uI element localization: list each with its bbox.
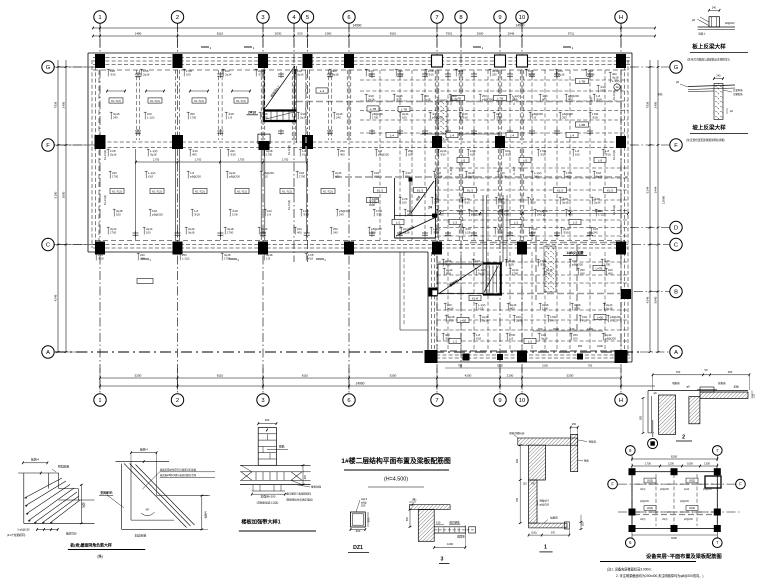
svg-text:附加斜筋: 附加斜筋 (58, 464, 70, 469)
column at G/263 (258, 54, 268, 68)
strength band right leaders (296, 485, 310, 487)
svg-text:2: 2 (176, 398, 179, 404)
svg-text:1200: 1200 (668, 462, 674, 466)
svg-text:100: 100 (263, 174, 268, 178)
svg-text:1,700: 1,700 (282, 158, 289, 162)
vertical beams right half (379, 70, 381, 240)
svg-text:1700: 1700 (372, 115, 379, 119)
svg-text:100: 100 (371, 230, 376, 234)
grid bubble H top (615, 11, 627, 23)
svg-text:2400: 2400 (62, 101, 66, 108)
svg-text:100: 100 (186, 72, 191, 76)
vertical grid line 1 (99, 23, 101, 393)
detail 1 lower narrow wall hatched (529, 480, 537, 523)
svg-text:L8(2): L8(2) (647, 479, 653, 483)
svg-text:B: B (674, 290, 678, 296)
svg-text:1700: 1700 (266, 152, 273, 156)
grid bubble 2 bottom (171, 394, 183, 406)
svg-text:1⊙8: 1⊙8 (478, 306, 484, 310)
small plan bubbles (626, 446, 636, 456)
horizontal grid line B (634, 291, 671, 293)
svg-text:6200: 6200 (671, 536, 677, 540)
vertical grid line 4 (293, 23, 295, 262)
left wall inner edge (98, 70, 100, 240)
svg-text:1360: 1360 (325, 32, 332, 36)
svg-text:L=50: L=50 (460, 318, 467, 322)
svg-text:板跨/4: 板跨/4 (31, 458, 39, 462)
detail 2 small hatched block (689, 397, 700, 424)
svg-text:(H=4.500): (H=4.500) (384, 477, 408, 483)
svg-text:2: 2 (176, 15, 179, 21)
svg-text:400: 400 (542, 97, 547, 101)
svg-text:1-8: 1-8 (266, 256, 270, 260)
svg-text:1700: 1700 (110, 230, 117, 234)
svg-text:1,700: 1,700 (153, 158, 160, 162)
svg-text:240: 240 (712, 7, 717, 10)
corner detail 2 left edge (121, 464, 123, 530)
svg-text:KL-6(2): KL-6(2) (513, 96, 516, 105)
svg-text:700: 700 (458, 364, 463, 368)
small plan corner box (705, 476, 721, 488)
svg-text:②18: ②18 (574, 306, 580, 310)
svg-text:预留: 预留 (584, 459, 590, 463)
corner fan right dim (80, 485, 82, 524)
svg-text:2400: 2400 (595, 209, 601, 213)
stair top flight steps (270, 112, 272, 121)
vertical grid line 8 (460, 23, 462, 368)
vertical grid line 9 (499, 23, 501, 393)
svg-text:2φ16: 2φ16 (482, 318, 489, 322)
svg-text:横向钢筋: 横向钢筋 (449, 520, 460, 524)
thick gray vertical line5 (305, 74, 307, 164)
svg-text:F: F (739, 482, 742, 487)
svg-text:附加斜筋: 附加斜筋 (101, 490, 113, 495)
stair mid bold marks (409, 178, 413, 182)
svg-text:L-2: L-2 (453, 339, 458, 343)
svg-text:锚固筋: 锚固筋 (457, 535, 465, 539)
main title underline (344, 469, 449, 471)
svg-text:1⊙8: 1⊙8 (465, 230, 471, 234)
svg-text:1700: 1700 (227, 230, 234, 234)
svg-text:F: F (611, 482, 614, 487)
svg-text:400: 400 (192, 152, 197, 156)
grid bubble D right (670, 221, 682, 233)
svg-text:G: G (46, 65, 51, 71)
corner detail 2 leaders right (142, 472, 159, 490)
stair low bold flight (483, 262, 502, 264)
detail 3 beam strip (434, 526, 465, 528)
svg-text:KL-10(2): KL-10(2) (287, 200, 291, 210)
thick gray beam right half (296, 101, 620, 103)
detail 3 dims left (409, 510, 411, 527)
svg-text:5144: 5144 (646, 186, 650, 193)
svg-text:KL-3: KL-3 (377, 188, 383, 192)
detail 1 bottom slab end piece (565, 522, 570, 529)
grid bubble A right (670, 346, 682, 358)
dim line F-C with 1700 texts (136, 161, 307, 163)
vertical grid line H (620, 23, 622, 393)
svg-text:700: 700 (588, 364, 593, 368)
svg-text:2φ14: 2φ14 (447, 306, 454, 310)
grid bubble B right (670, 285, 682, 297)
svg-text:8110: 8110 (217, 32, 224, 36)
corner detail 2 angle arc (141, 512, 155, 516)
strength band column stack (258, 428, 276, 466)
vertical grid line 7 (436, 23, 438, 393)
svg-text:7: 7 (435, 398, 438, 404)
detail 2 top dim line (653, 374, 750, 376)
small plan outline (632, 472, 717, 529)
svg-text:300: 300 (367, 517, 371, 522)
svg-text:L-1(2): L-1(2) (612, 79, 620, 83)
svg-text:①16: ①16 (445, 262, 451, 266)
svg-text:1#B(2)加腋: 1#B(2)加腋 (566, 250, 584, 255)
svg-text:加腋筋: 加腋筋 (550, 515, 558, 519)
svg-text:2φ14: 2φ14 (300, 115, 307, 119)
svg-text:KL-6(2): KL-6(2) (590, 96, 593, 105)
svg-text:2φ16: 2φ16 (558, 72, 565, 76)
svg-text:楼板加强带大样1: 楼板加强带大样1 (241, 518, 280, 526)
small plan thick gray beam (634, 514, 716, 516)
svg-text:KL8: KL8 (446, 271, 451, 275)
svg-text:3φ18: 3φ18 (403, 230, 410, 234)
svg-text:KL-7(2): KL-7(2) (323, 189, 333, 193)
column at B/433 (429, 288, 438, 297)
svg-text:240: 240 (550, 318, 555, 322)
svg-text:①16: ①16 (110, 72, 116, 76)
svg-text:①16: ①16 (497, 230, 503, 234)
svg-text:6: 6 (347, 15, 350, 21)
svg-text:(吊): (吊) (412, 498, 416, 502)
beam label boxes row G-F left (109, 98, 123, 103)
svg-text:450: 450 (728, 370, 733, 374)
svg-text:板跨均分: 板跨均分 (66, 532, 77, 536)
svg-text:②18: ②18 (563, 230, 569, 234)
svg-text:1⊙8: 1⊙8 (232, 212, 238, 216)
svg-text:②18: ②18 (262, 115, 268, 119)
svg-text:240: 240 (537, 212, 542, 216)
vertical grid line 5 (307, 23, 309, 262)
svg-text:670: 670 (551, 532, 556, 535)
svg-text:2400: 2400 (654, 101, 658, 108)
wing bottom wall thick dash (430, 350, 630, 352)
svg-text:2φ14: 2φ14 (594, 200, 601, 204)
svg-text:KL-7(2): KL-7(2) (195, 189, 205, 193)
corner fan top edge (18, 472, 59, 474)
svg-text:板配筋: 板配筋 (718, 381, 726, 385)
svg-text:1700: 1700 (190, 115, 197, 119)
right wall of band and wing outer (631, 53, 633, 362)
main title underline 2 (368, 486, 424, 488)
svg-text:②18: ②18 (505, 152, 511, 156)
corner fan bottom dim ticks (37, 529, 58, 531)
svg-text:200: 200 (361, 504, 366, 508)
svg-text:240: 240 (140, 256, 145, 260)
column at F/264 (259, 141, 270, 150)
svg-text:2400: 2400 (497, 209, 503, 213)
stair low main diagonal (439, 265, 481, 294)
svg-text:KL-10(2): KL-10(2) (612, 150, 616, 160)
svg-text:①16: ①16 (496, 115, 502, 119)
corner detail 2 top dim (131, 452, 157, 454)
right dimension lines (649, 60, 651, 352)
grid bubble 4 top (288, 11, 300, 23)
column at B/626 (621, 289, 631, 299)
svg-text:KL-6(2): KL-6(2) (450, 166, 453, 175)
svg-text:7938: 7938 (646, 101, 650, 108)
svg-text:L8(2): L8(2) (689, 506, 695, 510)
svg-text:φ8@200: φ8@200 (482, 97, 493, 101)
svg-text:(100): (100) (531, 532, 537, 535)
svg-text:2φ16: 2φ16 (468, 174, 475, 178)
column at G/177.5 (173, 54, 183, 68)
svg-text:120: 120 (753, 393, 756, 398)
small plan grid dashdot (631, 452, 633, 540)
wing interior beams horizontal (437, 261, 628, 263)
svg-text:KL-7(2): KL-7(2) (237, 189, 247, 193)
horizontal grid line G (42, 66, 96, 68)
svg-text:L8(2): L8(2) (689, 479, 695, 483)
beam rows right half G-F (360, 79, 628, 81)
left wall outer (87, 53, 89, 252)
svg-text:L8(2): L8(2) (640, 489, 646, 491)
column at A/431 (425, 350, 438, 363)
detail 2 bubble (648, 439, 658, 449)
svg-text:1700: 1700 (112, 174, 119, 178)
svg-text:H: H (619, 398, 623, 404)
svg-text:1480: 1480 (135, 32, 142, 36)
svg-text:H: H (619, 15, 623, 21)
strength band vertical ticks (255, 472, 257, 481)
grid bubble 2 top (171, 11, 183, 23)
corner detail 2 right edge horizontal (157, 495, 210, 497)
grid bubble 8 top (455, 11, 467, 23)
svg-text:2φ16: 2φ16 (143, 72, 150, 76)
svg-text:φ8@200: φ8@200 (605, 336, 616, 340)
svg-text:L-5: L-5 (461, 158, 466, 162)
horizontal grid line D (630, 227, 670, 229)
svg-text:150: 150 (436, 520, 441, 524)
column at C/263 (258, 242, 268, 255)
svg-text:②18: ②18 (194, 212, 200, 216)
left dimension lines (57, 60, 59, 352)
svg-text:3φ18: 3φ18 (478, 271, 485, 275)
corner detail 2 inner corner horizontal (131, 519, 174, 521)
svg-text:φ8@200: φ8@200 (378, 152, 389, 156)
svg-text:φ8@200: φ8@200 (152, 212, 163, 216)
svg-text:8110: 8110 (390, 32, 397, 36)
stair low room (438, 263, 502, 265)
svg-text:φ8@200: φ8@200 (703, 489, 713, 491)
solid interior line right mid (420, 133, 500, 135)
hollow G columns right half (432, 55, 443, 67)
svg-text:横向钢筋与板钢筋相同: 横向钢筋与板钢筋相同 (286, 492, 312, 496)
svg-text:板跨/4: 板跨/4 (140, 447, 148, 451)
svg-text:9711: 9711 (568, 32, 575, 36)
svg-text:φ8@200: φ8@200 (680, 501, 690, 503)
detail 1 right small dims (580, 515, 582, 529)
svg-text:φ8@200: φ8@200 (432, 115, 443, 119)
svg-text:L-2: L-2 (573, 220, 578, 224)
svg-text:1-8: 1-8 (267, 212, 271, 216)
svg-text:KL8: KL8 (148, 174, 153, 178)
TR detail 2 left leader (680, 84, 688, 87)
svg-text:板上反梁大样: 板上反梁大样 (692, 43, 726, 51)
corner detail 2 inner vertical (130, 462, 132, 520)
svg-text:5940: 5940 (654, 296, 658, 303)
svg-text:L-4: L-4 (570, 133, 575, 137)
svg-text:DZ1: DZ1 (353, 545, 363, 551)
beam label boxes row F-C left (110, 188, 124, 193)
svg-text:1-8: 1-8 (532, 115, 536, 119)
svg-text:9: 9 (498, 398, 501, 404)
endmarks under top wall (135, 73, 141, 75)
svg-text:400: 400 (304, 474, 307, 479)
beam label boxes right band row1 (367, 106, 379, 111)
detail 1 bottom dims (529, 534, 570, 536)
svg-text:L-5B: L-5B (579, 123, 585, 127)
svg-text:100: 100 (573, 336, 578, 340)
svg-text:250: 250 (405, 174, 410, 178)
svg-text:(两侧搭接长度满足锚固): (两侧搭接长度满足锚固) (286, 498, 313, 502)
svg-text:5200: 5200 (135, 374, 142, 378)
svg-text:混凝土: 混凝土 (698, 32, 706, 36)
column at G/621 (616, 54, 626, 68)
svg-text:L-5: L-5 (523, 158, 528, 162)
svg-text:φ8@200: φ8@200 (640, 501, 650, 503)
column at A/500 (497, 354, 503, 360)
svg-text:(用膨胀混凝土浇筑): (用膨胀混凝土浇筑) (257, 500, 279, 504)
svg-text:3: 3 (261, 398, 264, 404)
svg-text:L-5: L-5 (598, 158, 603, 162)
grid bubble 7 bottom (431, 394, 443, 406)
column at A/621 (615, 350, 628, 363)
detail 1 left dims (519, 445, 521, 523)
column at A/580 (577, 354, 583, 360)
stair mid room1 wall (409, 180, 411, 216)
detail 3 top slab hatched (409, 505, 450, 510)
svg-text:700: 700 (676, 370, 681, 374)
detail 2 leader to bubble (652, 420, 654, 437)
section marks below C row (141, 258, 149, 260)
svg-text:φ8@200: φ8@200 (572, 262, 583, 266)
horizontal grid line A (55, 351, 640, 353)
svg-text:700: 700 (531, 482, 536, 485)
svg-text:8: 8 (459, 15, 462, 21)
detail 2 right dim (751, 391, 753, 399)
wing thick gray beam row B (437, 293, 628, 295)
svg-text:KL-10(2): KL-10(2) (103, 195, 107, 205)
TR detail 1 left marks (698, 19, 709, 25)
dim texts below wing bottom wall (445, 367, 620, 369)
grid bubble 9 bottom (494, 394, 506, 406)
svg-text:L-7B: L-7B (401, 107, 407, 111)
svg-text:14900: 14900 (516, 24, 525, 28)
svg-text:L8(2): L8(2) (640, 519, 646, 521)
grid bubble 1 bottom (94, 394, 106, 406)
svg-text:板面负筋φ8@200(与板筋),型,板面: 板面负筋φ8@200(与板筋),型,板面 (160, 468, 197, 472)
column at G/349 (344, 54, 354, 68)
detail 2 right hatched slab (700, 392, 748, 399)
grid bubble 3 bottom (257, 394, 269, 406)
svg-text:①16: ①16 (440, 152, 446, 156)
grid bubble 1 top (94, 11, 106, 23)
thick gray beam above mid stair (335, 176, 628, 178)
detail 1 right stub hatched (571, 434, 578, 471)
svg-text:反梁纵筋: 反梁纵筋 (733, 88, 743, 92)
thick gray vertical beam line7 top (437, 88, 439, 238)
svg-text:1700: 1700 (604, 262, 611, 266)
protrusion left of wing (399, 252, 401, 330)
svg-text:1700: 1700 (645, 462, 651, 466)
svg-text:1,700: 1,700 (238, 158, 245, 162)
band bottom wall row C (88, 251, 428, 253)
svg-text:400: 400 (566, 174, 571, 178)
corner detail 2 top edge (116, 461, 170, 463)
svg-text:1-8: 1-8 (228, 115, 232, 119)
corner fan notch (47, 473, 49, 489)
svg-text:2φ16: 2φ16 (588, 72, 595, 76)
svg-text:L-4: L-4 (450, 133, 455, 137)
svg-text:500: 500 (640, 415, 643, 420)
svg-text:5200: 5200 (497, 364, 503, 368)
svg-text:1: 1 (98, 15, 101, 21)
detail 2 rebar detail (700, 387, 714, 392)
svg-text:板跨: 板跨 (82, 502, 86, 508)
svg-text:(3-4十板筋相同): (3-4十板筋相同) (7, 533, 26, 537)
top band outer wall top edge (88, 52, 632, 54)
svg-text:100: 100 (146, 230, 151, 234)
grid bubble 5 top (301, 11, 313, 23)
corner fan bottom edge (24, 522, 95, 524)
svg-text:3φ18: 3φ18 (188, 230, 195, 234)
grid bubble 7 top (431, 11, 443, 23)
svg-text:KL8: KL8 (582, 318, 587, 322)
svg-text:240: 240 (716, 75, 721, 78)
grid bubble 9 top (494, 11, 506, 23)
svg-text:2030: 2030 (275, 32, 282, 36)
wing label boxes (457, 317, 469, 322)
grid bubble 10 top (516, 11, 528, 23)
vertical grid line 10 (521, 23, 523, 393)
svg-text:L-1(2): L-1(2) (610, 318, 618, 322)
svg-text:(注:反梁位置见建筑图注明和详图): (注:反梁位置见建筑图注明和详图) (686, 138, 725, 142)
endmarks above C row (133, 232, 139, 234)
svg-text:(注1. 设备夹层楼面标高3.000m;: (注1. 设备夹层楼面标高3.000m; (607, 567, 652, 572)
svg-text:预留洞: 预留洞 (589, 440, 597, 444)
svg-text:楼板顶面标高: 楼板顶面标高 (509, 431, 525, 435)
svg-text:(略): (略) (97, 554, 102, 559)
svg-text:L-1(2): L-1(2) (598, 212, 606, 216)
detail 1 bottom slab hatched (529, 523, 567, 528)
svg-text:3444: 3444 (654, 186, 658, 193)
TR detail 1 slab lines (698, 26, 735, 28)
svg-text:KL8: KL8 (504, 212, 509, 216)
svg-text:45°: 45° (146, 508, 150, 512)
svg-text:L-2: L-2 (514, 220, 519, 224)
svg-text:1700: 1700 (512, 271, 519, 275)
svg-text:①16: ①16 (230, 152, 236, 156)
svg-text:L-4: L-4 (390, 133, 395, 137)
svg-text:2φ16: 2φ16 (596, 174, 603, 178)
column at G/100 (95, 54, 105, 68)
svg-text:F: F (674, 143, 678, 149)
svg-text:250: 250 (368, 72, 373, 76)
stair top bold flight bars (264, 109, 296, 111)
svg-text:L=50: L=50 (597, 315, 604, 319)
svg-text:250: 250 (261, 230, 266, 234)
svg-text:240: 240 (593, 230, 598, 234)
